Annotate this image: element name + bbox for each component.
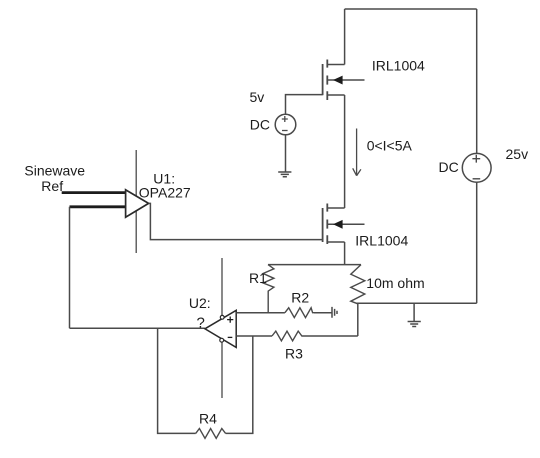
wire: feedback (U2 out to U1 inverting input) bbox=[69, 207, 71, 328]
wire: shunt bottom lead bbox=[357, 304, 359, 336]
voltage source V2 25v DC bbox=[462, 153, 491, 182]
svg-text:OPA227: OPA227 bbox=[139, 184, 191, 200]
wire: U1 inverting input bbox=[70, 205, 126, 208]
op-amp U2 bbox=[205, 310, 236, 347]
wire: Q1 source to Q2 drain bbox=[344, 95, 346, 208]
svg-text:R1: R1 bbox=[249, 270, 267, 286]
svg-text:R3: R3 bbox=[285, 345, 303, 361]
svg-text:10m ohm: 10m ohm bbox=[366, 275, 424, 291]
resistor R3 bbox=[272, 331, 303, 341]
svg-text:5v: 5v bbox=[250, 89, 265, 105]
wire: U2 inverting input bbox=[236, 335, 272, 337]
wire: bottom node rail bbox=[356, 302, 476, 304]
wire: R2 to ground bbox=[314, 312, 332, 314]
svg-text:R2: R2 bbox=[291, 290, 309, 306]
svg-text:R4: R4 bbox=[199, 410, 217, 426]
svg-text:Ref: Ref bbox=[41, 178, 63, 194]
wire: Sinewave Ref input bbox=[62, 191, 126, 194]
resistor R2 bbox=[285, 308, 314, 318]
wire: Q2 source lead to shunt rail bbox=[344, 242, 346, 265]
transistor Q2 IRL1004 (lower) bbox=[323, 204, 365, 245]
op-amp U1 bbox=[126, 190, 149, 217]
svg-text:Sinewave: Sinewave bbox=[24, 162, 85, 178]
voltage source V1 5v DC bbox=[275, 114, 296, 135]
wire: 25v source top lead bbox=[476, 9, 478, 153]
transistor Q1 IRL1004 (upper) bbox=[323, 60, 365, 101]
svg-text:DC: DC bbox=[439, 159, 459, 175]
wire: 25v source bottom lead bbox=[476, 182, 478, 303]
wire: Q1 drain lead bbox=[344, 9, 346, 65]
svg-text:0<I<5A: 0<I<5A bbox=[367, 138, 413, 154]
wire: source node rail bbox=[268, 264, 361, 266]
wire: R4 right leg bbox=[226, 336, 253, 433]
wire: U1 output to Q2 gate bbox=[149, 203, 323, 239]
wire: V+ top rail bbox=[345, 8, 477, 10]
svg-text:U2:: U2: bbox=[189, 295, 211, 311]
wire: U2 non-inverting input bbox=[236, 312, 285, 314]
ground (bottom node) bbox=[408, 303, 421, 326]
ground (R2, rotated) bbox=[332, 307, 337, 318]
wire: 5v source to ground bbox=[285, 135, 287, 172]
wire: R3 to shunt bottom bbox=[303, 335, 358, 337]
resistor R1 bbox=[263, 265, 274, 313]
resistor R4 bbox=[196, 429, 226, 439]
svg-text:?: ? bbox=[197, 314, 205, 331]
wire: 5v source to Q1 gate bbox=[286, 95, 323, 115]
svg-text:IRL1004: IRL1004 bbox=[355, 232, 408, 248]
current arrow 0<I<5A bbox=[353, 129, 361, 176]
svg-text:25v: 25v bbox=[506, 146, 529, 162]
U2 supply line bbox=[221, 258, 223, 398]
wire: R4 left leg bbox=[158, 328, 196, 433]
U1 supply line bbox=[135, 150, 137, 253]
wire: U2 output bbox=[70, 327, 205, 329]
resistor Rs 10m ohm (shunt) bbox=[351, 265, 365, 304]
svg-text:DC: DC bbox=[250, 117, 270, 133]
svg-text:IRL1004: IRL1004 bbox=[372, 58, 425, 74]
ground (5v source) bbox=[278, 172, 291, 177]
